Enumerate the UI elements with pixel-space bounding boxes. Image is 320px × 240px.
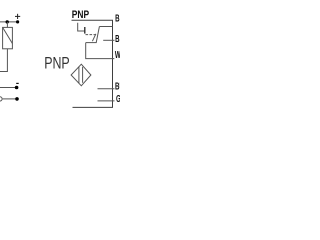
dashed link xyxy=(86,34,97,36)
sensor box outline xyxy=(72,20,113,107)
label BU xyxy=(115,80,124,92)
wire BU xyxy=(98,88,115,90)
terminal circle output xyxy=(0,97,2,101)
svg-text:PNP: PNP xyxy=(44,55,70,73)
svg-text:PNP: PNP xyxy=(72,9,90,21)
wire GN xyxy=(98,100,115,102)
wire supply minus xyxy=(0,87,17,89)
switch blade xyxy=(96,27,99,43)
label BN xyxy=(115,12,124,24)
label BK xyxy=(115,32,124,44)
plus supply symbol xyxy=(15,14,20,19)
label PNP small bold xyxy=(72,9,90,21)
label GN xyxy=(116,92,125,104)
minus supply symbol xyxy=(16,82,19,84)
svg-text:GN: GN xyxy=(116,92,120,104)
transistor gate bar xyxy=(84,27,86,34)
svg-text:BU: BU xyxy=(115,80,120,92)
arrow stroke xyxy=(92,34,96,41)
node terminal dot output xyxy=(15,97,19,101)
svg-text:BK: BK xyxy=(115,32,120,44)
diamond bar 1 xyxy=(78,67,80,83)
wire load down-left xyxy=(0,49,7,72)
wire output xyxy=(3,98,17,100)
contact terminal xyxy=(86,42,97,44)
wire supply top xyxy=(0,21,18,23)
node junction dot xyxy=(6,20,9,23)
node terminal dot minus xyxy=(15,86,19,90)
svg-text:BN: BN xyxy=(115,12,120,24)
label WH xyxy=(115,48,125,60)
wire contact down to WH xyxy=(86,43,115,59)
load resistor RL xyxy=(3,27,13,48)
wire BK xyxy=(103,39,114,41)
wire blade top to box edge xyxy=(99,26,112,28)
label PNP large xyxy=(44,55,70,73)
node terminal dot plus xyxy=(16,20,19,23)
svg-text:WH: WH xyxy=(115,48,120,60)
diamond bar 2 xyxy=(82,67,84,83)
wire stub to load xyxy=(6,22,8,28)
proximity sensor diamond xyxy=(71,64,91,86)
transistor gate lead xyxy=(78,23,85,31)
